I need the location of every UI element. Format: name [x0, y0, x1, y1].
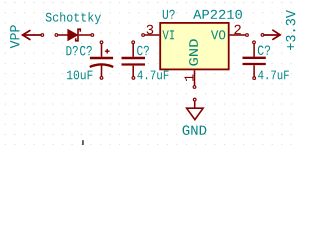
pin name VO	[211, 30, 225, 39]
power symbol +3.3V pin wire and arrow	[264, 30, 280, 39]
pin number 1	[185, 74, 194, 80]
capacitor C? 4.7uF (output) bottom pin wire	[253, 65, 255, 76]
power flag VPP pin-end circle	[41, 34, 44, 37]
diode D? triangle	[68, 30, 78, 41]
diode D? cathode pin circle	[91, 34, 94, 37]
diode D? schottky cathode bar	[76, 29, 81, 41]
capacitor C? 10uF curved bottom plate	[90, 64, 114, 66]
capacitor C? 4.7uF (input) top pin circle	[132, 41, 135, 44]
capacitor C? 10uF reference label	[80, 46, 92, 56]
capacitor C? value label 10uF	[67, 71, 92, 80]
capacitor C? 10uF top pin circle	[100, 41, 103, 44]
capacitor C? (output) value label 4.7uF	[258, 71, 289, 80]
pin 2 VO pin wire	[230, 34, 246, 36]
diode D? anode pin wire	[58, 34, 68, 36]
capacitor C? 10uF top pin wire	[101, 44, 103, 57]
power symbol +3.3V label text	[286, 10, 296, 50]
pin number 3	[147, 25, 154, 35]
power symbol GND label text	[183, 125, 207, 135]
capacitor C? (input) reference label	[137, 46, 149, 56]
pin name GND (inside box)	[189, 39, 198, 65]
diode D? reference label	[66, 46, 77, 55]
capacitor C? 4.7uF (input) top plate	[122, 57, 146, 59]
pin 1 GND pin circle	[193, 86, 196, 89]
power symbol GND pin circle	[193, 98, 196, 101]
pin 1 GND pin wire	[194, 70, 196, 85]
power symbol +3.3V pin circle	[261, 34, 264, 37]
capacitor C? 4.7uF (output) bottom plate	[243, 63, 266, 65]
capacitor C? 4.7uF (output) top pin wire	[253, 44, 255, 57]
pin 3 VI pin circle	[142, 34, 145, 37]
regulator U? body box	[160, 23, 229, 70]
capacitor C? 4.7uF (input) bottom pin circle	[132, 77, 135, 80]
diode D? value label Schottky	[46, 12, 101, 24]
regulator U? reference label	[163, 10, 175, 19]
capacitor C? 10uF bottom pin circle	[100, 77, 103, 80]
power symbol GND triangle	[187, 108, 204, 119]
capacitor C? (output) reference label	[258, 46, 270, 56]
capacitor C? 4.7uF (output) bottom pin circle	[253, 77, 256, 80]
pin name VI	[162, 30, 174, 39]
pin 2 VO pin circle	[246, 34, 249, 37]
capacitor C? 4.7uF (output) top pin circle	[253, 41, 256, 44]
capacitor C? 4.7uF (input) top pin wire	[132, 44, 134, 57]
diode D? cathode pin wire	[79, 34, 91, 36]
capacitor C? 4.7uF (output) top plate	[243, 57, 266, 59]
regulator U? value label AP2210	[193, 10, 242, 19]
cursor artifact bottom edge	[82, 140, 84, 145]
power symbol GND pin wire	[194, 101, 196, 108]
capacitor C? 4.7uF (input) bottom pin wire	[132, 66, 134, 77]
pin number 2	[234, 25, 240, 34]
capacitor C? 10uF top plate	[90, 57, 113, 59]
power flag VPP arrow	[23, 31, 41, 40]
diode D? anode pin circle	[55, 34, 58, 37]
capacitor C? 10uF polarity plus sign	[105, 49, 110, 54]
capacitor C? 4.7uF (input) bottom plate	[122, 63, 146, 65]
capacitor C? (input) value label 4.7uF	[137, 71, 168, 80]
power flag VPP label text	[10, 25, 19, 48]
pin 3 VI pin wire	[145, 34, 160, 36]
capacitor C? 10uF bottom pin wire	[101, 65, 103, 77]
